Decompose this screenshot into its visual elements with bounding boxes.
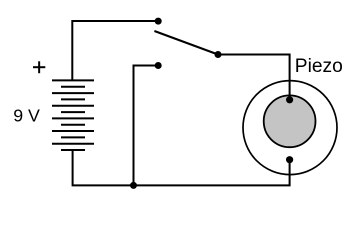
svg-text:Piezo: Piezo [295, 56, 343, 77]
svg-text:9 V: 9 V [13, 106, 40, 126]
